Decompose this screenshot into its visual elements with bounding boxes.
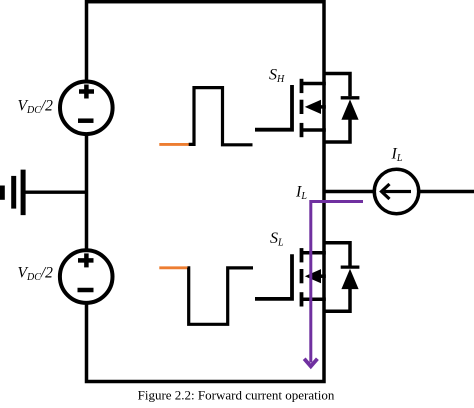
- drain stub: [302, 251, 326, 255]
- wire main loop rectangle: [87, 2, 325, 382]
- wire from bridge midpoint to current source: [324, 190, 373, 194]
- gate lead and gate bar: [255, 85, 292, 130]
- source stub: [302, 128, 326, 132]
- gate drive waveform for S_L (orange idle segment): [159, 266, 188, 269]
- svg-text:SH: SH: [269, 67, 285, 86]
- transistor S_L (low-side MOSFET): [255, 248, 326, 306]
- svg-text:IL: IL: [391, 146, 403, 165]
- caption text: [138, 388, 335, 403]
- gate drive waveform for S_H (orange idle segment): [159, 143, 189, 146]
- current path arrow I_L (purple): [304, 202, 363, 367]
- channel segment top: [300, 79, 304, 93]
- label S_L: [270, 230, 284, 249]
- channel segment top: [300, 248, 304, 262]
- channel segment middle: [300, 269, 304, 283]
- label S_H: [269, 67, 285, 86]
- channel segment bottom: [300, 123, 304, 137]
- channel segment middle: [300, 100, 304, 114]
- label VDC/2 (top): [18, 98, 54, 117]
- label VDC/2 (bottom): [18, 265, 54, 284]
- drain stub: [302, 82, 326, 86]
- voltage source V2 (bottom VDC/2): [60, 250, 113, 303]
- body diode of S_H: [324, 74, 359, 143]
- body diode of S_L: [324, 243, 359, 311]
- body arrow: [314, 105, 326, 109]
- gate drive waveform for S_L (pulse): [188, 268, 254, 324]
- label I_L (current source): [391, 146, 403, 165]
- label I_L (midpoint node): [295, 184, 307, 203]
- gate drive waveform for S_H (pulse): [189, 88, 253, 145]
- svg-text:VDC/2: VDC/2: [18, 265, 54, 284]
- svg-text:Figure 2.2: Forward current op: Figure 2.2: Forward current operation: [138, 388, 335, 403]
- gate lead and gate bar: [255, 254, 292, 299]
- svg-text:IL: IL: [295, 184, 307, 203]
- channel segment bottom: [300, 292, 304, 306]
- svg-text:SL: SL: [270, 230, 284, 249]
- body arrow: [314, 274, 326, 278]
- ground: [2, 170, 86, 216]
- wire from current source to right edge: [420, 190, 474, 194]
- voltage source V1 (top VDC/2): [60, 82, 113, 135]
- source stub: [302, 298, 326, 302]
- svg-text:VDC/2: VDC/2: [18, 98, 54, 117]
- transistor S_H (high-side MOSFET): [255, 79, 326, 137]
- current source I_L: [374, 169, 418, 213]
